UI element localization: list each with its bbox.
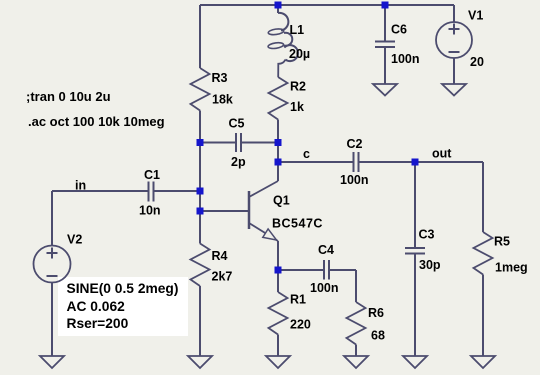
svg-text:L1: L1	[290, 23, 305, 37]
svg-text:Rser=200: Rser=200	[67, 316, 129, 331]
svg-text:18k: 18k	[212, 93, 233, 107]
svg-text:R1: R1	[290, 293, 306, 307]
svg-text:20: 20	[470, 55, 484, 69]
svg-text:100n: 100n	[391, 52, 420, 66]
svg-text:Q1: Q1	[273, 194, 290, 208]
svg-text:c: c	[303, 147, 310, 161]
svg-text:R6: R6	[368, 306, 384, 320]
svg-text:10n: 10n	[139, 204, 161, 218]
svg-text:C5: C5	[229, 117, 245, 131]
svg-text:1k: 1k	[290, 100, 304, 114]
svg-text:C3: C3	[419, 228, 435, 242]
svg-text:30p: 30p	[419, 258, 441, 272]
svg-text:2p: 2p	[231, 155, 246, 169]
svg-text:R4: R4	[212, 249, 228, 263]
svg-text:100n: 100n	[310, 281, 339, 295]
svg-text:68: 68	[371, 329, 385, 343]
svg-text:100n: 100n	[340, 173, 369, 187]
svg-text:AC 0.062: AC 0.062	[67, 299, 126, 314]
svg-text:R5: R5	[494, 235, 510, 249]
svg-text:V1: V1	[468, 9, 483, 23]
svg-text:.ac oct 100 10k 10meg: .ac oct 100 10k 10meg	[28, 114, 165, 129]
svg-text:C6: C6	[391, 23, 407, 37]
svg-text:2k7: 2k7	[212, 270, 233, 284]
svg-text:SINE(0 0.5 2meg): SINE(0 0.5 2meg)	[67, 281, 179, 296]
svg-text:V2: V2	[67, 233, 82, 247]
svg-text:C2: C2	[347, 137, 363, 151]
svg-text:out: out	[432, 147, 452, 161]
svg-text:;tran 0 10u 2u: ;tran 0 10u 2u	[26, 89, 111, 104]
svg-text:20µ: 20µ	[289, 47, 310, 61]
svg-text:1meg: 1meg	[495, 261, 528, 275]
svg-text:C1: C1	[144, 168, 160, 182]
svg-text:R2: R2	[290, 80, 306, 94]
svg-text:220: 220	[290, 318, 311, 332]
svg-text:C4: C4	[318, 243, 334, 257]
svg-text:in: in	[75, 179, 86, 193]
svg-text:R3: R3	[212, 71, 228, 85]
svg-text:BC547C: BC547C	[272, 217, 323, 231]
